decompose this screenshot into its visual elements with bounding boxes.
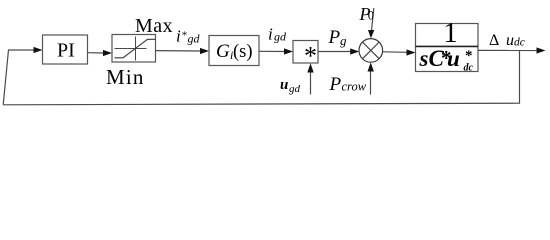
svg-text:i: i — [176, 27, 181, 46]
multiplier block * — [293, 41, 318, 71]
svg-text:gd: gd — [274, 30, 287, 44]
svg-text:PI: PI — [57, 40, 75, 62]
svg-text:Max: Max — [135, 15, 173, 37]
wire feedback left vertical — [3, 50, 8, 105]
wire output — [478, 47, 546, 53]
wire limiter to Gi — [156, 48, 210, 54]
svg-text:0: 0 — [368, 9, 374, 23]
label Min — [106, 65, 145, 89]
wire ugd up into multiplier — [307, 63, 313, 94]
svg-text:crow: crow — [342, 80, 367, 94]
svg-text:u: u — [447, 46, 460, 71]
block Gi(s) — [209, 36, 259, 66]
label P0 — [359, 4, 375, 24]
svg-text:u: u — [280, 77, 288, 93]
svg-text:Δ: Δ — [489, 32, 499, 49]
wire Pcrow up into summing junction — [368, 62, 374, 94]
svg-text:dc: dc — [514, 37, 525, 49]
svg-text:1: 1 — [443, 17, 458, 49]
label Max — [135, 15, 173, 37]
svg-text:P: P — [329, 74, 342, 95]
label delta udc — [489, 32, 525, 49]
wire feedback bottom — [3, 103, 519, 105]
svg-text:g: g — [340, 33, 347, 48]
label ugd — [280, 77, 301, 95]
svg-text:*: * — [465, 48, 473, 64]
wire multiplier to summing junction — [318, 48, 359, 54]
svg-text:gd: gd — [289, 83, 301, 95]
svg-text:gd: gd — [188, 32, 201, 46]
svg-text:G: G — [216, 41, 230, 62]
limiter (saturation) block — [112, 35, 156, 63]
label Pg — [328, 27, 348, 48]
svg-text:Min: Min — [106, 65, 145, 89]
svg-text:P: P — [328, 27, 341, 48]
label i*gd — [176, 27, 201, 46]
svg-text:u: u — [506, 32, 514, 49]
svg-text:*: * — [182, 30, 188, 42]
wire Gi to multiplier — [259, 48, 293, 54]
wire summing junction to integrator block — [383, 49, 416, 55]
wire P0 down into summing junction — [368, 8, 374, 38]
svg-text:(s): (s) — [233, 42, 253, 62]
summing junction circle with X — [359, 39, 383, 63]
wire feedback right vertical — [519, 51, 521, 104]
wire PI to limiter — [88, 50, 113, 56]
integrator block 1/(sC*udc*) — [416, 17, 479, 73]
svg-text:i: i — [268, 25, 273, 44]
svg-text:dc: dc — [464, 63, 474, 74]
wire input into PI — [8, 47, 43, 53]
label Pcrow — [329, 74, 367, 95]
block PI — [43, 35, 88, 64]
label igd — [268, 25, 287, 44]
